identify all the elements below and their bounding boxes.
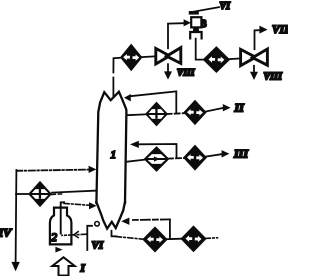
wire VI branch to vessel 2 dashdot [62, 234, 87, 235]
heat exchanger E7 [29, 182, 50, 205]
arrow row III return [130, 141, 139, 148]
wire valve VIII-2 to VII [255, 30, 260, 49]
wire IV vertical [15, 170, 18, 262]
wire column to E3 [127, 113, 147, 116]
arrow III [222, 150, 230, 157]
arrow VIII-1 [164, 71, 172, 79]
wire IV return dashdot to column [16, 170, 88, 171]
arrow small below vessel 2 [55, 247, 62, 253]
column 1 [96, 92, 126, 203]
svg-text:IV: IV [0, 226, 12, 240]
heat exchanger E9 [182, 227, 206, 251]
svg-text:VI: VI [220, 1, 232, 12]
wire E2 to valve VIII-2 [229, 57, 241, 60]
separator 3 vessel [189, 11, 202, 38]
arrow IV return [89, 166, 97, 173]
heat exchanger E5 [145, 148, 168, 171]
svg-text:1: 1 [111, 149, 117, 161]
wire separator 3 vent to VI [194, 7, 219, 11]
heat exchanger E4 [185, 101, 206, 124]
wire E7 to column [52, 191, 97, 193]
svg-text:3: 3 [202, 19, 207, 30]
wire VI feed vertical [87, 226, 92, 250]
heat exchanger E6 [184, 146, 205, 169]
wire E1 to valve VIII-1 [141, 55, 156, 58]
wire IV line to E7 [16, 193, 30, 195]
vessel 2 [50, 208, 72, 245]
wire vessel 2 dip tube [61, 202, 64, 233]
stream I hollow arrow [52, 257, 74, 275]
wire E8 to E9 with riser [166, 220, 182, 240]
svg-text:VII: VII [272, 24, 288, 36]
wire vapor line column top to E1 [113, 58, 121, 97]
wire separator 3 to E2 [196, 39, 205, 60]
wire column to E5 [126, 160, 145, 162]
wire vessel 2 to column dashdot [64, 203, 89, 205]
wire E9 out dashdot [205, 237, 217, 240]
wire valve VIII-1 drain [167, 64, 169, 72]
arrow stream IV [11, 262, 19, 272]
column 1 bottom shell [96, 202, 125, 229]
wire downcomer to E8 dashdot [116, 237, 143, 240]
arrow VIII-2 [250, 72, 258, 80]
node circle at column bottom [95, 222, 100, 227]
svg-text:VI: VI [92, 240, 104, 252]
svg-text:VIII: VIII [264, 71, 283, 82]
wire reboiler return dashdot [131, 218, 170, 221]
svg-text:III: III [233, 147, 249, 161]
arrow VI into vessel 2 [74, 232, 78, 238]
valve VIII-1 [156, 48, 181, 64]
arrow into separator 3 [184, 19, 191, 26]
heat exchanger E3 [146, 103, 166, 125]
wire row III return to column [139, 144, 177, 157]
wire E4 to stream II [205, 108, 223, 112]
svg-text:2: 2 [51, 230, 57, 244]
valve VIII-2 [241, 49, 268, 66]
arrow vessel 2 to column [89, 202, 97, 209]
wire row II return to column [130, 91, 176, 113]
wire column bottoms downcomer [112, 231, 117, 237]
wire E5 to E6 [168, 157, 184, 160]
svg-text:I: I [80, 263, 86, 275]
arrow reboiler return [121, 218, 129, 225]
heat exchanger E1 [121, 45, 141, 70]
wire E6 to stream III [206, 154, 222, 156]
heat exchanger E8 [144, 228, 167, 251]
heat exchanger E2 [204, 48, 229, 72]
wire valve VIII-2 drain [253, 66, 255, 73]
svg-text:VIII: VIII [177, 69, 195, 79]
svg-text:II: II [234, 101, 246, 115]
arrow II [223, 104, 231, 111]
arrow VII [259, 26, 267, 34]
wire E3 to E4 [167, 112, 185, 115]
wire valve VIII-1 to separator 3 [168, 23, 183, 48]
arrow row II return [124, 94, 131, 101]
